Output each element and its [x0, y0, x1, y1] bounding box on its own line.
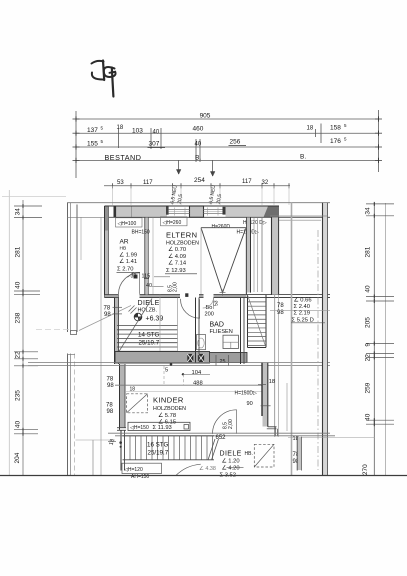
svg-text:78: 78 — [104, 306, 111, 312]
svg-text:H=150D▷: H=150D▷ — [235, 391, 257, 397]
svg-text:18: 18 — [130, 387, 136, 393]
svg-text:40: 40 — [146, 283, 152, 289]
svg-text:98: 98 — [107, 383, 114, 389]
svg-text:ELTERN: ELTERN — [166, 231, 197, 240]
svg-text:53: 53 — [214, 300, 220, 306]
svg-text:HOLZB.: HOLZB. — [138, 308, 157, 314]
svg-text:2,00: 2,00 — [228, 419, 234, 429]
svg-text:◁H=260: ◁H=260 — [163, 220, 182, 226]
svg-text:176: 176 — [330, 138, 341, 145]
svg-text:∠ 1.99: ∠ 1.99 — [119, 252, 137, 259]
svg-text:HB: HB — [120, 246, 127, 252]
svg-text:Σ 12.93: Σ 12.93 — [166, 268, 186, 274]
svg-text:137: 137 — [87, 127, 98, 134]
svg-text:40: 40 — [365, 285, 372, 293]
svg-text:40: 40 — [153, 130, 160, 136]
svg-text:98: 98 — [277, 310, 284, 316]
svg-text:16 STG: 16 STG — [147, 442, 169, 449]
svg-text:103: 103 — [132, 128, 143, 135]
svg-text:25/19.7: 25/19.7 — [148, 450, 169, 457]
svg-text:∠ 7.14: ∠ 7.14 — [168, 260, 187, 267]
svg-text:HOLZBODEN: HOLZBODEN — [166, 241, 199, 247]
svg-text:78: 78 — [107, 377, 114, 383]
svg-text:238: 238 — [15, 312, 22, 323]
svg-text:18: 18 — [307, 126, 314, 132]
svg-text:235: 235 — [15, 390, 22, 401]
svg-text:117: 117 — [143, 180, 153, 186]
svg-text:307: 307 — [149, 141, 160, 148]
svg-text:40: 40 — [195, 142, 202, 148]
svg-text:155: 155 — [87, 141, 98, 148]
svg-text:254: 254 — [194, 177, 205, 184]
svg-text:B.: B. — [300, 154, 306, 161]
svg-text:158: 158 — [330, 125, 341, 132]
svg-text:H=260D: H=260D — [212, 224, 231, 230]
svg-text:◁H=150: ◁H=150 — [130, 425, 149, 431]
svg-text:53: 53 — [117, 180, 124, 186]
svg-text:40: 40 — [15, 281, 22, 289]
svg-text:104: 104 — [192, 370, 202, 376]
svg-text:B.: B. — [195, 155, 201, 162]
svg-text:FLIESEN: FLIESEN — [210, 329, 233, 335]
svg-text:40: 40 — [15, 421, 22, 429]
svg-text:KINDER: KINDER — [153, 396, 184, 405]
svg-text:DIELE: DIELE — [220, 451, 242, 458]
svg-text:14 STG: 14 STG — [138, 332, 160, 339]
svg-text:AH=150: AH=150 — [131, 474, 149, 480]
svg-text:78: 78 — [277, 303, 284, 309]
svg-text:200: 200 — [205, 312, 214, 318]
svg-text:22: 22 — [365, 354, 372, 362]
svg-text:+6.39: +6.39 — [146, 316, 164, 323]
svg-text:488: 488 — [193, 381, 203, 387]
svg-text:32: 32 — [262, 180, 269, 186]
svg-text:◁H=120: ◁H=120 — [124, 467, 143, 473]
svg-text:Σ 5.25 D: Σ 5.25 D — [292, 317, 314, 323]
svg-text:∠ 5.78: ∠ 5.78 — [158, 412, 176, 419]
svg-text:25/19.7: 25/19.7 — [139, 340, 160, 347]
svg-text:∠ 0.70: ∠ 0.70 — [168, 246, 186, 253]
svg-text:5: 5 — [165, 367, 168, 373]
svg-text:∠ 4.38: ∠ 4.38 — [199, 466, 216, 472]
svg-text:AR: AR — [120, 239, 129, 246]
svg-text:281: 281 — [365, 246, 372, 257]
svg-text:256: 256 — [230, 139, 241, 146]
svg-text:40: 40 — [365, 413, 372, 421]
svg-text:117: 117 — [242, 179, 252, 185]
svg-text:22: 22 — [15, 351, 22, 359]
svg-text:Σ 11.93: Σ 11.93 — [153, 425, 172, 431]
svg-text:90: 90 — [247, 401, 253, 407]
svg-text:98: 98 — [104, 312, 111, 318]
svg-text:98: 98 — [107, 409, 114, 415]
svg-text:Σ 2.19: Σ 2.19 — [294, 311, 310, 317]
svg-text:115: 115 — [142, 274, 151, 280]
svg-text:205: 205 — [365, 317, 372, 328]
svg-text:◁H=100: ◁H=100 — [118, 221, 137, 227]
svg-text:204: 204 — [14, 452, 21, 463]
svg-text:460: 460 — [193, 126, 204, 133]
svg-text:905: 905 — [200, 113, 211, 120]
svg-text:HOLZBODEN: HOLZBODEN — [153, 406, 186, 412]
svg-text:259: 259 — [365, 382, 372, 393]
svg-text:BAD: BAD — [210, 322, 224, 329]
svg-text:34: 34 — [15, 208, 22, 216]
svg-text:18: 18 — [117, 125, 124, 131]
svg-text:BH=150: BH=150 — [132, 230, 150, 236]
svg-text:652: 652 — [216, 435, 227, 441]
svg-text:HB.: HB. — [245, 451, 253, 457]
svg-text:Σ 2.40: Σ 2.40 — [294, 304, 310, 310]
svg-text:9: 9 — [365, 343, 372, 347]
svg-text:BESTAND: BESTAND — [105, 153, 142, 162]
svg-text:∠ 1.20: ∠ 1.20 — [222, 458, 240, 465]
svg-text:∠ 4.09: ∠ 4.09 — [168, 253, 186, 260]
svg-text:2,00: 2,00 — [173, 282, 179, 292]
svg-text:Σ 2.70: Σ 2.70 — [117, 267, 133, 273]
svg-text:270: 270 — [362, 464, 369, 475]
svg-text:∠ 0.66: ∠ 0.66 — [294, 297, 312, 304]
svg-text:34: 34 — [365, 207, 372, 215]
svg-text:281: 281 — [15, 246, 22, 257]
svg-text:18: 18 — [269, 379, 275, 385]
svg-text:∠ 1.41: ∠ 1.41 — [119, 258, 137, 265]
svg-text:78: 78 — [106, 403, 113, 409]
